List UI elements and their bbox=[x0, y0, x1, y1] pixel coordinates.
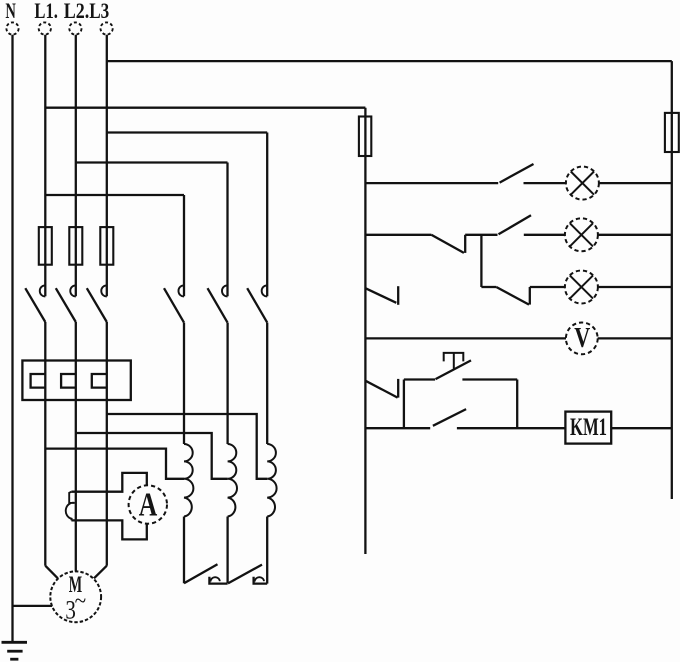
fuse FU4 bbox=[359, 117, 371, 157]
svg-text:L1.: L1. bbox=[34, 0, 58, 23]
wire L2 tap feed bbox=[76, 433, 228, 479]
wire N to motor bbox=[13, 605, 53, 607]
fuse FU2 bbox=[69, 227, 82, 265]
ammeter circle bbox=[129, 485, 167, 523]
wire L3 into motor bbox=[94, 566, 107, 579]
svg-text:~: ~ bbox=[75, 589, 87, 615]
rung2 mid wire bbox=[465, 234, 497, 236]
rung3 right wire bbox=[598, 286, 672, 288]
breaker QS pole 1 blade bbox=[25, 288, 45, 322]
interlock vertical bbox=[480, 235, 482, 287]
wire L3 down bbox=[106, 322, 108, 566]
ammeter bottom wire bbox=[71, 520, 146, 539]
rung1 right wire bbox=[599, 182, 672, 184]
wire L1 tap feed bbox=[45, 449, 184, 479]
wire L1 branch to KM contact 1 bbox=[45, 194, 184, 196]
rung3 wire a bbox=[481, 286, 496, 288]
bus contact blade at rung3 bbox=[365, 288, 396, 303]
CT secondary coil bbox=[66, 492, 75, 521]
lamp HL3 bbox=[565, 271, 598, 304]
bus contact stub at rung3 bbox=[397, 286, 399, 305]
wire to autotransformer 3 bbox=[266, 323, 268, 444]
ammeter top wire bbox=[71, 473, 146, 492]
rung2 contact blade bbox=[499, 215, 532, 234]
KM pole 2 fixed contact bbox=[222, 285, 228, 296]
KM pole 3 fixed contact bbox=[262, 285, 268, 296]
star switch arc 1 bbox=[211, 577, 220, 581]
stop button blade bbox=[365, 381, 397, 398]
rung3 wire b bbox=[530, 286, 565, 288]
fuse FU3 bbox=[100, 227, 113, 265]
fuse FU5 bbox=[665, 113, 679, 152]
rung3 NC stub bbox=[529, 287, 531, 305]
wire L1 to thermal relay bbox=[44, 322, 46, 566]
rung2 right wire bbox=[598, 234, 672, 236]
terminal L1 bbox=[39, 22, 51, 34]
wire L3 to right control fuse bbox=[107, 60, 672, 62]
KM pole 2 blade bbox=[208, 288, 228, 322]
wire to autotransformer 1 bbox=[183, 323, 185, 444]
terminal L3 bbox=[101, 22, 113, 34]
wire L1 into motor bbox=[45, 566, 58, 579]
wire L2 to motor bbox=[75, 322, 77, 572]
lamp HL1 bbox=[566, 167, 599, 200]
breaker QS pole 3 fixed contact bbox=[101, 285, 107, 296]
svg-text:L2.: L2. bbox=[64, 0, 90, 23]
start button blade bbox=[436, 360, 472, 379]
breaker QS pole 3 blade bbox=[87, 288, 107, 322]
svg-text:N: N bbox=[5, 0, 16, 23]
rung5 mid wire bbox=[457, 427, 566, 429]
winding 1 bottom wire bbox=[183, 517, 185, 584]
star switch blade 1 bbox=[184, 564, 218, 583]
wire L2 vertical upper bbox=[75, 35, 77, 296]
right control bus bbox=[671, 61, 673, 499]
star switch fixed 2 bbox=[254, 577, 268, 584]
contactor coil KM1 box bbox=[565, 412, 611, 444]
stop button stub bbox=[397, 379, 399, 398]
fuse FU1 bbox=[39, 227, 52, 265]
start branch left vertical bbox=[403, 380, 405, 429]
wire L1 vertical upper bbox=[44, 35, 46, 296]
rung5 left wire bbox=[365, 427, 430, 429]
ground bbox=[2, 641, 28, 644]
winding 3 bottom wire bbox=[266, 517, 268, 584]
start branch wire b bbox=[462, 378, 517, 380]
wire L2 branch to KM contact 2 bbox=[76, 161, 228, 163]
FR heater phase 1 bbox=[31, 374, 46, 388]
rung1 left wire bbox=[365, 182, 498, 184]
wire L3 tap feed bbox=[107, 414, 267, 479]
star switch blade 2 bbox=[228, 565, 262, 584]
motor M circle bbox=[50, 571, 101, 622]
FR heater phase 2 bbox=[61, 374, 76, 388]
rung2 mid wire b bbox=[524, 234, 565, 236]
svg-text:A: A bbox=[139, 487, 158, 524]
thermal relay FR box bbox=[22, 361, 130, 401]
rung5 right wire bbox=[611, 427, 672, 429]
FR heater phase 3 bbox=[92, 374, 107, 388]
autotransformer winding 1 bbox=[184, 444, 193, 517]
start branch right vertical bbox=[516, 380, 518, 429]
star switch arc 2 bbox=[255, 577, 264, 581]
breaker QS pole 2 blade bbox=[56, 288, 76, 322]
rung1 contact blade bbox=[500, 164, 534, 183]
rung4 left wire bbox=[365, 337, 566, 339]
svg-text:L3: L3 bbox=[89, 0, 109, 23]
rung5 KM blade bbox=[433, 409, 466, 426]
breaker QS pole 2 fixed contact bbox=[70, 285, 76, 296]
start button pusher bbox=[444, 353, 464, 362]
KM contactor branch 2 wire bbox=[226, 163, 228, 297]
svg-text:V: V bbox=[574, 322, 590, 354]
wire L3 vertical upper bbox=[106, 35, 108, 296]
rung4 right wire bbox=[598, 337, 672, 339]
wire N vertical bbox=[11, 35, 13, 643]
rung2 left wire bbox=[365, 234, 431, 236]
rung2 NC blade bbox=[431, 235, 464, 253]
star switch fixed 1 bbox=[209, 577, 227, 584]
terminal L2 bbox=[69, 22, 81, 34]
KM pole 3 blade bbox=[247, 288, 267, 322]
autotransformer winding 2 bbox=[228, 444, 237, 517]
KM contactor branch 1 wire bbox=[183, 195, 185, 296]
KM pole 1 fixed contact bbox=[178, 285, 184, 296]
terminal N bbox=[6, 22, 18, 34]
start branch wire a bbox=[404, 378, 435, 380]
lamp HL2 bbox=[565, 218, 598, 251]
breaker QS pole 1 fixed contact bbox=[40, 285, 46, 296]
rung2 NC stub bbox=[464, 235, 466, 253]
wire L1 to left control fuse bbox=[45, 107, 365, 109]
wire L3 branch to KM contact 3 bbox=[107, 131, 267, 133]
KM contactor branch 3 wire bbox=[266, 133, 268, 297]
rung3 NC blade bbox=[496, 287, 529, 305]
winding 2 bottom wire bbox=[226, 517, 228, 584]
autotransformer winding 3 bbox=[267, 444, 276, 517]
left control bus bbox=[364, 108, 366, 554]
rung1 mid wire bbox=[524, 182, 566, 184]
voltmeter V bbox=[566, 323, 598, 355]
svg-text:KM1: KM1 bbox=[570, 414, 607, 441]
wire to autotransformer 2 bbox=[226, 323, 228, 444]
KM pole 1 blade bbox=[164, 288, 184, 322]
